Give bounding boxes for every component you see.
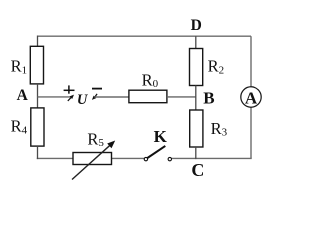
minus sign of source U	[92, 88, 102, 90]
switch K left contact	[144, 157, 147, 160]
resistor R1	[30, 46, 43, 84]
left terminal arrow of source U	[68, 95, 74, 101]
svg-text:D: D	[191, 17, 202, 34]
wire right branch between R2 and R3 through node B	[195, 86, 197, 111]
svg-text:B: B	[203, 88, 214, 107]
resistor R5 (variable) body	[73, 153, 112, 165]
wire bottom from switch through node C to right corner	[171, 157, 251, 159]
switch K right contact	[168, 157, 171, 160]
svg-text:C: C	[191, 160, 204, 180]
wire right side upper (top corner down to ammeter)	[250, 36, 252, 87]
svg-text:U: U	[77, 92, 89, 108]
right terminal arrow of source U	[92, 94, 97, 100]
wire stub from top wire at D down to R2	[195, 36, 197, 48]
wire bottom left segment	[37, 157, 73, 159]
svg-text:K: K	[154, 127, 168, 146]
resistor R2	[190, 49, 203, 86]
resistor R0	[129, 90, 167, 103]
wire left branch between R1 and R4 through node A	[37, 84, 39, 108]
svg-text:A: A	[17, 87, 29, 104]
wire left branch lower (R4 down to bottom corner)	[37, 146, 39, 159]
switch K blade	[147, 146, 165, 158]
resistor R3	[190, 110, 203, 147]
wire right side lower (ammeter to bottom corner)	[250, 107, 252, 158]
wire left branch upper (top corner to R1)	[37, 36, 39, 47]
wire top from left branch to right branch	[38, 35, 252, 37]
wire middle branch from - terminal to R0	[95, 96, 130, 98]
resistor R4	[31, 108, 44, 146]
wire middle branch from R0 to node B	[167, 96, 196, 98]
plus sign of source U	[64, 85, 75, 93]
wire stub from R3 down to bottom wire at node C	[195, 147, 197, 159]
arrow through R5	[72, 141, 115, 180]
wire bottom between R5 and switch	[112, 157, 145, 159]
ammeter A	[241, 87, 261, 108]
svg-text:A: A	[245, 88, 258, 107]
wire middle branch from node A to + terminal	[38, 96, 72, 98]
